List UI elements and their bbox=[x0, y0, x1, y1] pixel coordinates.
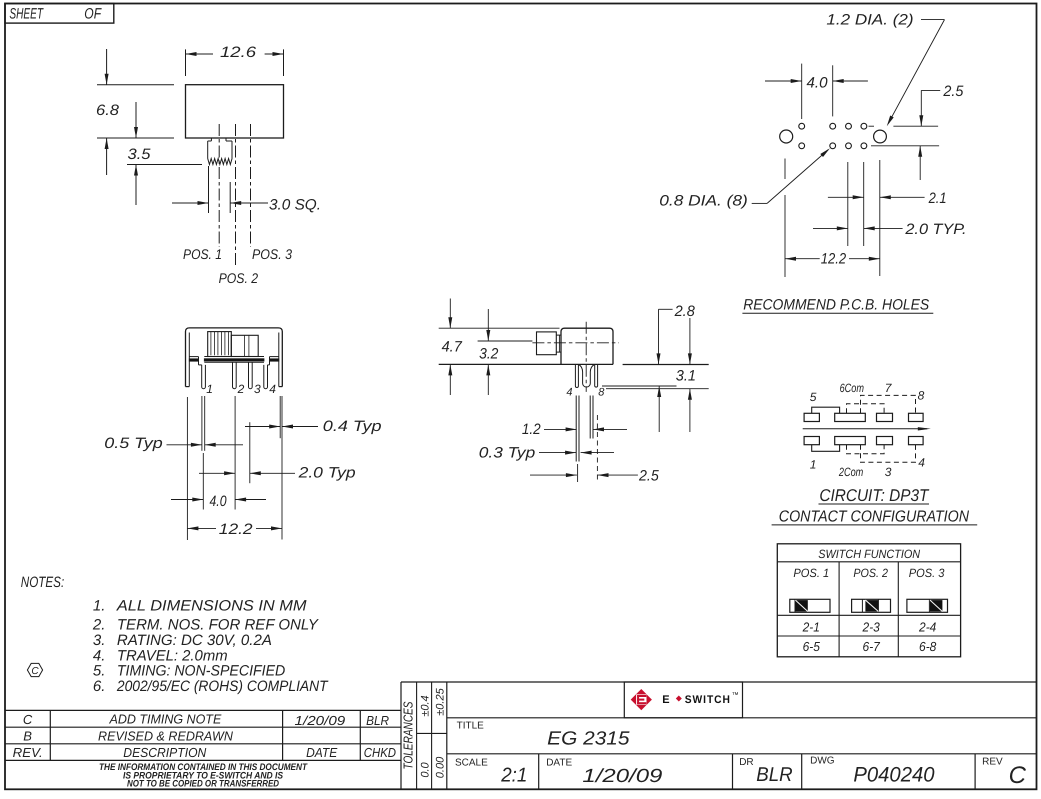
svg-text:TOLERANCES: TOLERANCES bbox=[400, 701, 415, 769]
svg-text:CIRCUIT: DP3T: CIRCUIT: DP3T bbox=[819, 486, 929, 505]
svg-text:2.8: 2.8 bbox=[674, 303, 696, 320]
svg-text:8: 8 bbox=[598, 387, 605, 399]
svg-text:2.1: 2.1 bbox=[928, 190, 947, 207]
svg-text:REV: REV bbox=[982, 756, 1003, 767]
svg-text:DATE: DATE bbox=[546, 757, 572, 768]
svg-text:3: 3 bbox=[885, 465, 892, 479]
svg-text:4: 4 bbox=[566, 387, 572, 399]
svg-text:OF: OF bbox=[84, 6, 101, 23]
svg-text:6-8: 6-8 bbox=[919, 639, 937, 654]
svg-text:1/20/09: 1/20/09 bbox=[295, 713, 346, 728]
svg-text:1: 1 bbox=[206, 382, 213, 396]
svg-text:2: 2 bbox=[237, 382, 245, 396]
svg-text:2-3: 2-3 bbox=[862, 619, 881, 634]
svg-text:SWITCH FUNCTION: SWITCH FUNCTION bbox=[818, 547, 920, 561]
svg-text:E: E bbox=[662, 694, 669, 706]
svg-text:C: C bbox=[1009, 762, 1027, 789]
svg-text:TITLE: TITLE bbox=[457, 720, 485, 731]
svg-text:RECOMMEND P.C.B. HOLES: RECOMMEND P.C.B. HOLES bbox=[743, 297, 929, 314]
svg-text:3: 3 bbox=[254, 382, 261, 396]
svg-text:±0.4: ±0.4 bbox=[419, 695, 431, 716]
svg-text:P040240: P040240 bbox=[853, 763, 934, 786]
svg-text:2-1: 2-1 bbox=[802, 619, 820, 634]
svg-text:1.2: 1.2 bbox=[522, 421, 541, 438]
svg-text:2002/95/EC (ROHS) COMPLIANT: 2002/95/EC (ROHS) COMPLIANT bbox=[116, 678, 329, 695]
svg-text:™: ™ bbox=[732, 692, 739, 699]
svg-text:SCALE: SCALE bbox=[455, 757, 488, 768]
svg-text:7: 7 bbox=[885, 381, 893, 395]
svg-text:C: C bbox=[31, 666, 39, 677]
svg-text:NOT TO BE COPIED OR TRANSFERRE: NOT TO BE COPIED OR TRANSFERRED bbox=[127, 778, 279, 789]
svg-text:±0.25: ±0.25 bbox=[434, 687, 446, 715]
svg-text:POS. 1: POS. 1 bbox=[793, 566, 829, 580]
svg-text:1/20/09: 1/20/09 bbox=[582, 766, 663, 787]
svg-text:2-4: 2-4 bbox=[918, 619, 936, 634]
svg-text:POS. 3: POS. 3 bbox=[252, 246, 292, 262]
svg-text:3.5: 3.5 bbox=[128, 146, 152, 163]
svg-text:BLR: BLR bbox=[756, 764, 792, 786]
svg-text:ALL DIMENSIONS IN MM: ALL DIMENSIONS IN MM bbox=[116, 597, 307, 614]
svg-text:8: 8 bbox=[918, 389, 925, 403]
svg-text:0.0: 0.0 bbox=[419, 761, 431, 777]
svg-text:4: 4 bbox=[269, 382, 276, 396]
svg-text:4.0: 4.0 bbox=[210, 493, 228, 510]
svg-text:0.5 Typ: 0.5 Typ bbox=[104, 435, 162, 452]
svg-text:6.: 6. bbox=[93, 678, 106, 695]
svg-text:12.2: 12.2 bbox=[219, 521, 254, 538]
svg-text:3.0 SQ.: 3.0 SQ. bbox=[269, 197, 321, 214]
svg-text:12.6: 12.6 bbox=[220, 44, 257, 61]
svg-text:6.8: 6.8 bbox=[96, 102, 120, 119]
svg-text:REV.: REV. bbox=[13, 745, 43, 760]
svg-text:2Com: 2Com bbox=[838, 465, 863, 479]
svg-text:2:1: 2:1 bbox=[500, 765, 527, 787]
svg-text:CHKD: CHKD bbox=[364, 745, 396, 760]
svg-text:EG 2315: EG 2315 bbox=[547, 729, 630, 750]
svg-text:0.8 DIA. (8): 0.8 DIA. (8) bbox=[659, 192, 748, 209]
svg-text:6-7: 6-7 bbox=[863, 639, 881, 654]
svg-text:12.2: 12.2 bbox=[821, 251, 847, 268]
svg-text:ADD TIMING NOTE: ADD TIMING NOTE bbox=[109, 712, 222, 727]
svg-text:C: C bbox=[23, 712, 33, 727]
svg-text:NOTES:: NOTES: bbox=[21, 574, 64, 591]
svg-text:6-5: 6-5 bbox=[803, 639, 821, 654]
svg-text:SWITCH: SWITCH bbox=[685, 694, 731, 706]
svg-text:3.2: 3.2 bbox=[479, 346, 499, 363]
svg-text:2.5: 2.5 bbox=[638, 468, 659, 485]
svg-text:DR: DR bbox=[739, 757, 753, 768]
svg-text:POS. 1: POS. 1 bbox=[183, 246, 222, 262]
svg-text:0.4 Typ: 0.4 Typ bbox=[323, 418, 382, 435]
svg-text:B: B bbox=[23, 728, 32, 743]
svg-text:4.7: 4.7 bbox=[442, 338, 463, 355]
svg-text:5: 5 bbox=[810, 390, 817, 404]
svg-text:0.00: 0.00 bbox=[434, 756, 446, 778]
svg-text:BLR: BLR bbox=[366, 713, 389, 728]
svg-text:2.0 TYP.: 2.0 TYP. bbox=[904, 221, 966, 238]
svg-text:2.0 Typ: 2.0 Typ bbox=[297, 464, 355, 481]
svg-text:4.0: 4.0 bbox=[807, 75, 829, 92]
svg-text:DESCRIPTION: DESCRIPTION bbox=[123, 745, 207, 760]
svg-text:2.5: 2.5 bbox=[942, 83, 964, 100]
svg-text:REVISED & REDRAWN: REVISED & REDRAWN bbox=[98, 728, 233, 743]
svg-text:6Com: 6Com bbox=[840, 381, 864, 395]
svg-text:1.2 DIA. (2): 1.2 DIA. (2) bbox=[826, 11, 913, 28]
svg-text:1: 1 bbox=[810, 458, 817, 472]
svg-text:0.3 Typ: 0.3 Typ bbox=[479, 444, 535, 461]
svg-text:4: 4 bbox=[918, 455, 925, 469]
svg-text:SHEET: SHEET bbox=[9, 6, 44, 23]
svg-text:1.: 1. bbox=[93, 597, 106, 614]
svg-text:CONTACT CONFIGURATION: CONTACT CONFIGURATION bbox=[779, 509, 970, 526]
svg-text:POS. 3: POS. 3 bbox=[909, 566, 945, 580]
svg-text:POS. 2: POS. 2 bbox=[219, 270, 259, 286]
svg-text:DATE: DATE bbox=[306, 745, 337, 760]
svg-text:DWG: DWG bbox=[810, 755, 835, 766]
svg-text:3.1: 3.1 bbox=[676, 367, 696, 384]
svg-text:POS. 2: POS. 2 bbox=[853, 566, 888, 580]
